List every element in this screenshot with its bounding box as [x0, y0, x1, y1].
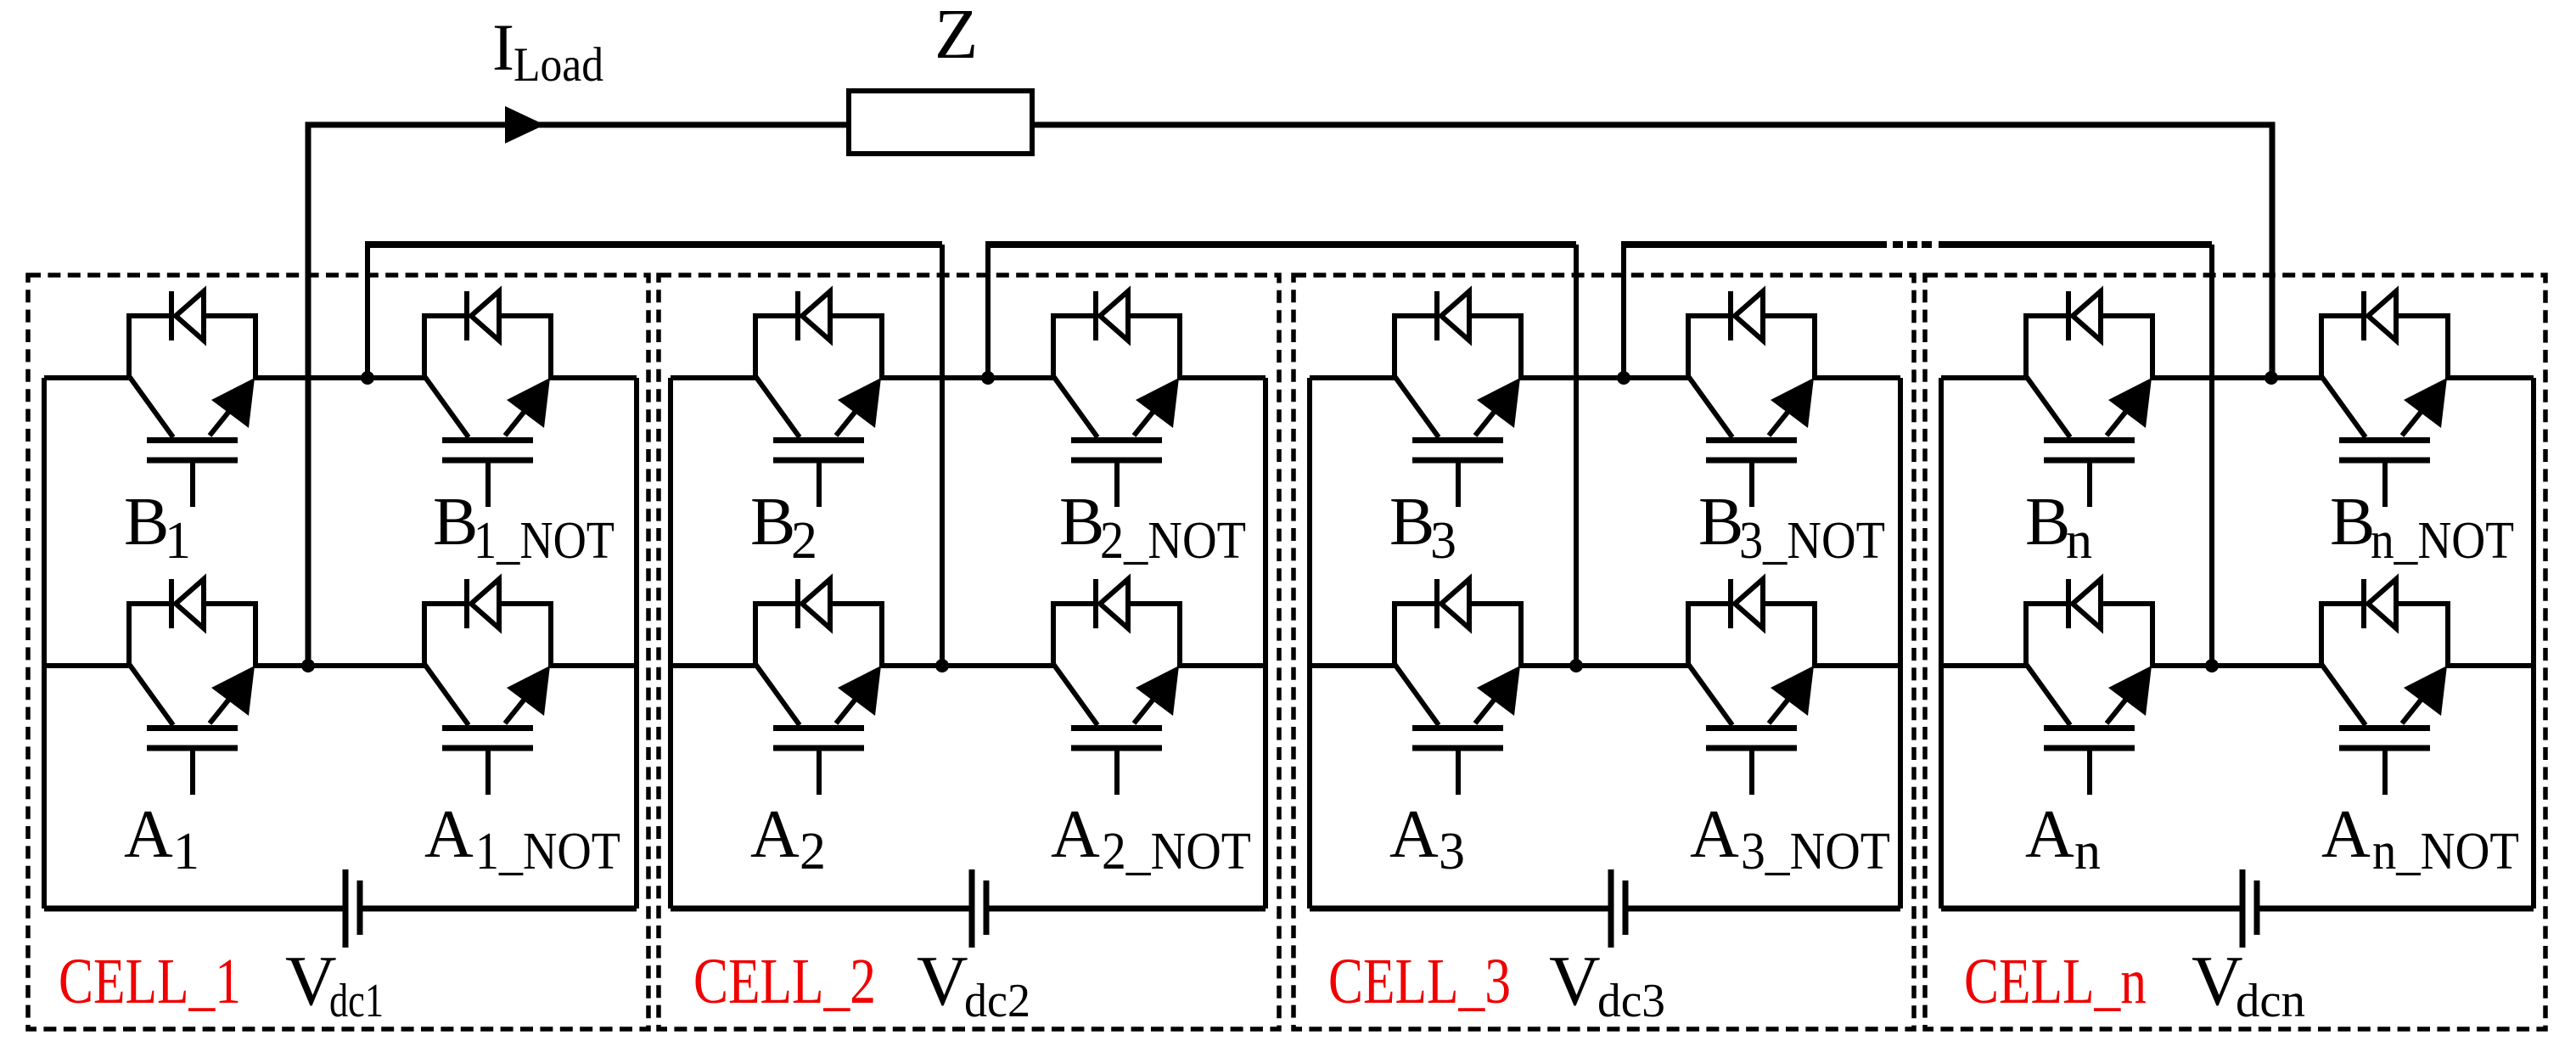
svg-text:Z: Z — [934, 0, 978, 74]
svg-text:A: A — [1051, 797, 1100, 872]
svg-text:V: V — [917, 942, 968, 1021]
svg-text:3_NOT: 3_NOT — [1739, 512, 1885, 570]
svg-text:2: 2 — [800, 823, 826, 880]
svg-text:Load: Load — [514, 38, 603, 92]
svg-text:CELL_3: CELL_3 — [1328, 946, 1511, 1017]
svg-text:B: B — [124, 485, 169, 560]
svg-text:I: I — [492, 10, 514, 84]
svg-text:dc3: dc3 — [1597, 975, 1665, 1027]
svg-text:V: V — [1549, 942, 1601, 1021]
svg-text:A: A — [124, 797, 173, 872]
svg-text:n_NOT: n_NOT — [2371, 512, 2514, 570]
svg-text:B: B — [1389, 485, 1434, 560]
svg-text:B: B — [2330, 485, 2375, 560]
svg-text:1_NOT: 1_NOT — [475, 823, 620, 880]
svg-text:CELL_2: CELL_2 — [693, 946, 876, 1017]
svg-text:B: B — [2025, 485, 2070, 560]
svg-text:dc1: dc1 — [329, 975, 384, 1027]
svg-text:A: A — [2321, 797, 2371, 872]
svg-text:1_NOT: 1_NOT — [474, 512, 615, 570]
svg-text:A: A — [424, 797, 474, 872]
svg-text:2_NOT: 2_NOT — [1102, 823, 1251, 880]
svg-text:B: B — [1059, 485, 1104, 560]
svg-text:CELL_1: CELL_1 — [59, 946, 241, 1017]
svg-text:CELL_n: CELL_n — [1964, 946, 2147, 1017]
svg-text:dc2: dc2 — [964, 975, 1030, 1027]
svg-text:n: n — [2074, 823, 2101, 880]
svg-text:3: 3 — [1430, 512, 1456, 570]
svg-text:A: A — [2025, 797, 2074, 872]
svg-text:1: 1 — [165, 512, 191, 570]
svg-text:1: 1 — [173, 823, 199, 880]
svg-text:3: 3 — [1439, 823, 1465, 880]
svg-text:n: n — [2066, 512, 2092, 570]
svg-text:B: B — [750, 485, 795, 560]
svg-text:A: A — [1690, 797, 1739, 872]
svg-text:B: B — [1698, 485, 1743, 560]
svg-text:n_NOT: n_NOT — [2372, 823, 2519, 880]
svg-text:A: A — [1389, 797, 1439, 872]
svg-text:B: B — [433, 485, 478, 560]
svg-text:dcn: dcn — [2236, 975, 2305, 1027]
svg-text:3_NOT: 3_NOT — [1741, 823, 1890, 880]
svg-text:A: A — [750, 797, 800, 872]
svg-text:2: 2 — [791, 512, 817, 570]
svg-text:2_NOT: 2_NOT — [1100, 512, 1246, 570]
